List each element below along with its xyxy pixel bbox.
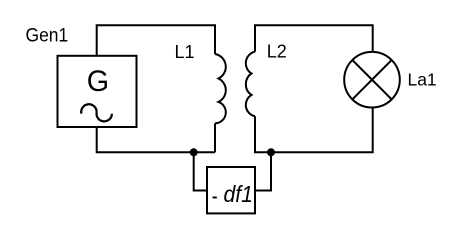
wire L1 bottom lead [214, 123, 216, 152]
label - df1 [213, 197, 217, 199]
wire top-left: Gen1 top to L1 top [97, 25, 215, 56]
generator sine symbol [81, 104, 112, 121]
svg-text:G: G [87, 64, 109, 98]
junction node right [267, 148, 275, 156]
inductor L2 coil [246, 52, 255, 117]
svg-text:df1: df1 [224, 181, 253, 207]
wire bottom-left: Gen1 bottom to L1 bottom [97, 127, 215, 152]
wire right tap from df1 box [255, 152, 271, 190]
junction node left [190, 148, 198, 156]
wire left tap to df1 box [194, 152, 207, 190]
meter df1 box [207, 167, 255, 213]
inductor L1 coil [215, 54, 226, 123]
wire bottom-right: L2 bottom to lamp bottom [255, 108, 373, 153]
svg-text:L2: L2 [267, 42, 287, 62]
lamp X diagonal 2 [352, 60, 391, 99]
lamp La1 circle [344, 52, 400, 108]
lamp X diagonal 1 [352, 60, 391, 99]
svg-text:L1: L1 [175, 42, 195, 62]
generator U Gen1 box [58, 56, 137, 127]
svg-text:Gen1: Gen1 [26, 24, 69, 46]
svg-text:La1: La1 [408, 69, 437, 89]
wire top-right: L2 top to lamp top [255, 25, 373, 52]
